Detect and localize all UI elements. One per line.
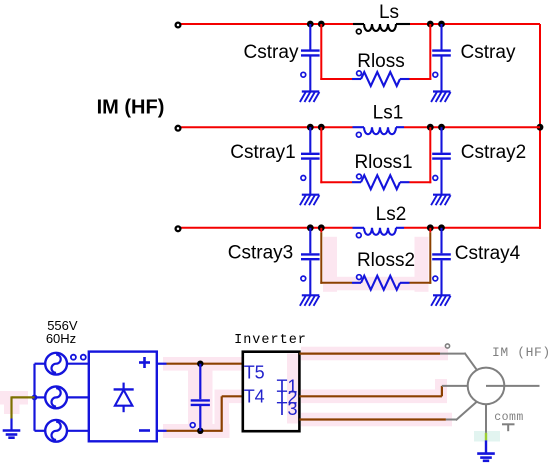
resistor Rloss2 pin circle	[357, 275, 362, 280]
junction dc- / cap	[197, 428, 203, 434]
net highlight inside inverter	[287, 354, 299, 424]
ground below Cstray	[300, 92, 319, 103]
capacitor Cstray wire bottom	[440, 57, 442, 92]
capacitor dc link pin circle	[190, 423, 195, 428]
junction source bus	[32, 395, 38, 401]
motor shaft	[486, 385, 540, 387]
inductor Ls pin circle	[356, 29, 361, 34]
motor ground stem green	[485, 433, 487, 441]
capacitor Cstray3 wire bottom	[309, 260, 311, 295]
junction dots branch1	[307, 21, 445, 28]
capacitor Cstray1 wire bottom	[309, 160, 311, 195]
capacitor Cstray2 pin circle	[433, 176, 438, 181]
diode inside rectifier	[114, 383, 134, 413]
wire bus branch1 left	[181, 23, 353, 25]
inductor Ls2 pin circle	[356, 233, 361, 238]
wire V3 right stub	[67, 430, 89, 432]
inductor Ls coil	[364, 24, 396, 31]
highlight motor ground	[474, 431, 500, 442]
wire loop branch2 bottom	[320, 181, 431, 183]
label T2	[276, 388, 297, 408]
junction dots branch2	[307, 124, 445, 131]
wire loop branch2 right vertical	[429, 127, 431, 183]
label Rloss2	[357, 250, 415, 271]
svg-text:Cstray: Cstray	[461, 42, 516, 63]
svg-text:Cstray4: Cstray4	[455, 243, 521, 264]
capacitor Cstray3 plates	[301, 254, 320, 259]
inductor leads branch2	[353, 126, 405, 128]
capacitor Cstray wire top	[309, 24, 311, 50]
svg-text:Cstray: Cstray	[244, 42, 299, 63]
resistor Rloss pin circle	[357, 71, 362, 76]
label 556V	[47, 318, 78, 333]
ground below Cstray3	[300, 295, 319, 306]
svg-text:Rloss2: Rloss2	[357, 250, 415, 271]
ground below Cstray4	[431, 295, 450, 306]
svg-text:Cstray3: Cstray3	[228, 243, 293, 264]
label IM (HF) motor	[492, 345, 550, 360]
wire source ground stub	[10, 419, 12, 431]
motor ground stem blue	[485, 440, 487, 453]
capacitor Cstray3 wire top	[309, 228, 311, 254]
capacitor Cstray1 plates	[301, 154, 320, 159]
label Cstray2	[461, 142, 526, 163]
svg-text:Ls2: Ls2	[376, 204, 407, 225]
inductor L1 leads	[353, 23, 410, 25]
capacitor Cstray wire bottom	[309, 57, 311, 92]
net highlight inside Rloss2 loop	[323, 237, 429, 292]
junction dots branch3	[307, 224, 445, 231]
net highlight phase A out	[301, 347, 448, 361]
capacitor Cstray wire top	[440, 24, 442, 50]
svg-text:IM (HF): IM (HF)	[97, 97, 165, 119]
motor ground stem gray	[485, 404, 487, 433]
label Cstray3	[228, 243, 293, 264]
label Rloss	[357, 51, 405, 72]
capacitor dc link plates	[191, 400, 210, 405]
svg-text:T4: T4	[244, 386, 265, 406]
wire right vertical bus	[539, 24, 541, 229]
ground below Cstray	[431, 92, 450, 103]
wire phase C	[299, 418, 446, 420]
label 60Hz	[46, 331, 76, 346]
svg-text:Cstray1: Cstray1	[230, 142, 295, 163]
net highlight dc link cap	[188, 364, 213, 431]
label Cstray4	[455, 243, 521, 264]
wire phase B gray	[442, 385, 468, 387]
capacitor Cstray2 wire bottom	[440, 160, 442, 195]
wire loop branch3 left vertical	[320, 228, 322, 284]
label T4	[244, 386, 265, 406]
capacitor Cstray plates	[301, 51, 320, 56]
wire loop branch3 right vertical	[429, 228, 431, 284]
net highlight phase C out	[301, 413, 452, 427]
svg-text:Cstray2: Cstray2	[461, 142, 526, 163]
capacitor Cstray1 pin circle	[301, 176, 306, 181]
ac source V1	[45, 353, 67, 375]
svg-text:T5: T5	[244, 362, 265, 382]
junction right bus / branch2	[537, 124, 544, 131]
terminal pin branch2	[176, 126, 181, 131]
capacitor Cstray2 plates	[432, 154, 451, 159]
wire bus branch3 right	[404, 227, 540, 229]
comm T symbol	[502, 424, 515, 431]
label T3	[276, 399, 297, 419]
label Cstray	[244, 42, 299, 63]
terminal pin branch1	[176, 23, 181, 28]
wire dc+	[167, 363, 243, 365]
wire V2 right stub	[67, 396, 89, 398]
svg-text:comm: comm	[494, 411, 524, 424]
label Rloss1	[354, 152, 412, 173]
resistor Rloss2 leads	[352, 282, 410, 284]
motor IM circle	[468, 368, 505, 405]
ground source (earth)	[3, 431, 21, 438]
wire bus branch3 left	[181, 227, 353, 229]
svg-text:IM (HF): IM (HF)	[492, 345, 550, 360]
resistor Rloss2 zigzag	[361, 276, 400, 290]
resistor Rloss1 zigzag	[361, 175, 400, 189]
net highlight source ground	[0, 391, 28, 414]
ac source V3	[45, 420, 67, 442]
wire phase A	[299, 353, 440, 355]
wire dc+ blue stub	[157, 363, 167, 365]
wire phase B	[299, 386, 442, 396]
wire phase C gray	[446, 401, 477, 420]
wire bus branch1 right	[410, 23, 540, 25]
wire source left bus	[33, 364, 35, 431]
resistor Rloss zigzag	[361, 72, 400, 86]
label Ls2	[376, 204, 407, 225]
label Cstray	[461, 42, 516, 63]
wire V2 left stub	[35, 396, 46, 398]
inductor Ls1 coil	[364, 127, 396, 134]
capacitor Cstray3 pin circle	[301, 276, 306, 281]
junction dc+ / cap	[197, 361, 203, 367]
net highlight dc- wire	[163, 424, 230, 438]
capacitor Cstray4 wire top	[440, 228, 442, 254]
svg-text:T3: T3	[276, 399, 297, 419]
capacitor Cstray4 plates	[432, 254, 451, 259]
rectifier minus sign	[139, 429, 150, 432]
capacitor Cstray1 wire top	[309, 127, 311, 153]
capacitor Cstray4 pin circle	[433, 276, 438, 281]
ground below Cstray1	[300, 195, 319, 206]
svg-text:Ls: Ls	[379, 2, 399, 23]
rectifier box	[89, 352, 157, 442]
resistor Rloss1 leads	[352, 181, 410, 183]
net highlight phase B out	[301, 379, 447, 403]
capacitor Cstray2 wire top	[440, 127, 442, 153]
terminal pin branch3	[176, 226, 181, 231]
inductor leads branch3	[353, 227, 405, 229]
label T1	[276, 377, 297, 397]
wire V3 left stub	[35, 430, 46, 432]
ground motor (earth)	[477, 454, 495, 461]
wire V1 right stub	[67, 363, 89, 365]
wire bus branch2 right	[404, 126, 540, 128]
capacitor Cstray4 wire bottom	[440, 260, 442, 295]
rectifier pin circles	[71, 355, 86, 360]
capacitor dc link wire top	[199, 364, 201, 400]
wire loop branch1 left vertical	[320, 24, 322, 80]
wire V1 left stub	[35, 363, 46, 365]
inductor Ls2 coil	[364, 228, 396, 235]
svg-text:Ls1: Ls1	[373, 103, 404, 124]
svg-text:Inverter: Inverter	[234, 333, 307, 348]
wire loop branch2 left vertical	[320, 127, 322, 183]
svg-text:60Hz: 60Hz	[46, 331, 76, 346]
wire dc-	[167, 430, 222, 432]
wire dc- jog to T4	[222, 396, 243, 432]
wire phase A gray	[440, 353, 477, 371]
svg-text:Rloss: Rloss	[357, 51, 405, 72]
label IM (HF) block	[97, 97, 165, 119]
label T5	[244, 362, 265, 382]
capacitor Cstray plates	[432, 51, 451, 56]
label Ls1	[373, 103, 404, 124]
wire to source ground	[12, 396, 35, 418]
label Inverter	[234, 333, 307, 348]
inverter box	[243, 352, 300, 432]
wire loop branch1 right vertical	[429, 24, 431, 80]
net highlight T4 jog	[215, 390, 243, 438]
net highlight dc+ wire	[163, 357, 243, 371]
label comm	[494, 411, 524, 424]
ground below Cstray2	[431, 195, 450, 206]
inductor Ls1 pin circle	[356, 132, 361, 137]
wire loop branch3 bottom	[320, 282, 431, 284]
capacitor Cstray pin circle	[301, 72, 306, 77]
svg-text:Rloss1: Rloss1	[354, 152, 412, 173]
rectifier plus sign	[139, 357, 150, 368]
resistor Rloss1 pin circle	[357, 174, 362, 179]
wire dc- blue stub	[157, 430, 167, 432]
resistor Rloss leads	[352, 78, 410, 80]
pin circle phase A	[445, 344, 449, 348]
label Ls	[379, 2, 399, 23]
ac source V2	[45, 387, 67, 409]
wire bus branch2 left	[181, 126, 353, 128]
label Cstray1	[230, 142, 295, 163]
capacitor dc link wire bottom	[199, 406, 201, 431]
capacitor Cstray pin circle	[433, 72, 438, 77]
wire loop branch1 bottom	[320, 78, 431, 80]
